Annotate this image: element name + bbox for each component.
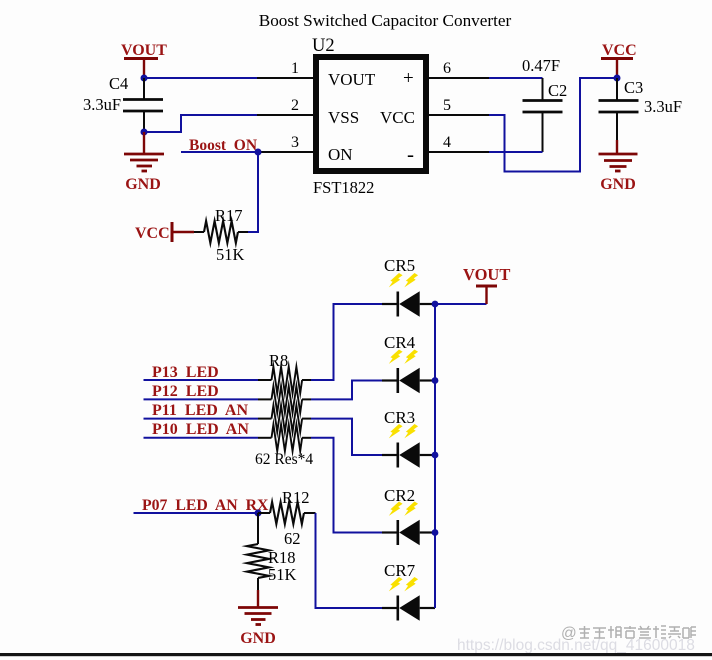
wire Boost_ON to pin 3: [181, 151, 258, 153]
svg-text:VOUT: VOUT: [121, 42, 167, 59]
svg-text:GND: GND: [240, 630, 276, 647]
wire R8 row4 down to CR2: [302, 437, 311, 439]
node junction CR3 / bus: [432, 452, 439, 459]
svg-text:P12 LED: P12 LED: [152, 383, 219, 400]
svg-text:+: +: [403, 68, 414, 89]
svg-text:GND: GND: [125, 176, 161, 193]
wire P12 to R8: [144, 398, 259, 400]
svg-text:FST1822: FST1822: [313, 178, 374, 197]
svg-text:@: @: [561, 625, 577, 642]
svg-text:3: 3: [291, 134, 299, 151]
capacitor C3: [599, 78, 639, 140]
svg-text:1: 1: [291, 60, 299, 77]
svg-text:5: 5: [443, 97, 451, 114]
svg-text:VSS: VSS: [328, 108, 359, 127]
wire C4 bottom to pin 2 (VSS): [144, 115, 257, 132]
svg-text:GND: GND: [600, 176, 636, 193]
power symbol VCC (right): [601, 42, 637, 78]
resistor R17: [194, 221, 248, 243]
svg-text:62 Res*4: 62 Res*4: [255, 451, 313, 468]
svg-text:-: -: [407, 142, 414, 166]
wire pin 6 to C2 top: [489, 77, 543, 79]
watermark juejin community: [561, 625, 577, 642]
op-amp U2 inner pin names: [328, 68, 415, 166]
svg-text:3.3uF: 3.3uF: [83, 95, 121, 114]
LED CR4: [382, 333, 435, 393]
wire P13 to R8: [144, 379, 259, 381]
node junction Boost_ON / R17: [255, 149, 262, 156]
svg-text:VCC: VCC: [602, 42, 637, 59]
watermark cjk glyphs: [579, 626, 696, 638]
LED CR5: [382, 256, 435, 317]
svg-text:ON: ON: [328, 145, 353, 164]
LED CR3: [382, 408, 435, 468]
svg-text:CR3: CR3: [384, 408, 415, 427]
op-amp U2 body: [316, 57, 426, 171]
resistor network R8 (4 zigzags): [272, 367, 303, 451]
ground symbol (C4): [124, 132, 164, 193]
bottom border line: [0, 653, 712, 656]
pin 2 lead: [257, 114, 313, 116]
capacitor C4: [123, 78, 163, 132]
wire P10 to R8: [144, 437, 259, 439]
pin 4 lead: [429, 151, 489, 153]
capacitor C2: [523, 78, 563, 152]
node junction CR4 / bus: [432, 377, 439, 384]
svg-text:P10 LED AN: P10 LED AN: [152, 421, 249, 438]
svg-text:C2: C2: [548, 81, 567, 100]
svg-text:CR5: CR5: [384, 256, 415, 275]
pin 5 lead: [429, 114, 489, 116]
svg-text:VCC: VCC: [380, 108, 415, 127]
node junction CR5 / bus: [432, 301, 439, 308]
ground symbol (C3): [599, 140, 638, 193]
svg-text:P07 LED AN RX: P07 LED AN RX: [142, 497, 269, 514]
svg-text:VCC: VCC: [135, 225, 170, 242]
svg-text:6: 6: [443, 60, 451, 77]
svg-text:CR4: CR4: [384, 333, 416, 352]
ground symbol (R18): [238, 590, 278, 647]
pin 3 lead: [258, 151, 313, 153]
svg-text:0.47F: 0.47F: [522, 56, 560, 75]
svg-text:P13 LED: P13 LED: [152, 364, 219, 381]
svg-text:51K: 51K: [216, 245, 245, 264]
svg-text:51K: 51K: [268, 565, 297, 584]
svg-text:R12: R12: [282, 488, 310, 507]
svg-text:3.3uF: 3.3uF: [644, 97, 682, 116]
power symbol VOUT (left): [121, 42, 167, 78]
wire P07 to node: [134, 512, 259, 514]
node junction VCC / C3: [614, 75, 621, 82]
power symbol VOUT (right): [435, 265, 510, 304]
resistor R12: [258, 502, 316, 524]
svg-text:VOUT: VOUT: [463, 265, 510, 284]
svg-text:2: 2: [291, 97, 299, 114]
node junction CR2 / bus: [432, 529, 439, 536]
resistor R18: [247, 513, 269, 590]
svg-text:VOUT: VOUT: [328, 70, 376, 89]
svg-text:U2: U2: [312, 36, 335, 56]
wire node VOUT to pin 1: [144, 77, 257, 79]
LED CR2: [382, 486, 435, 545]
svg-text:CR7: CR7: [384, 561, 416, 580]
LED CR7: [382, 561, 435, 621]
svg-text:62: 62: [284, 529, 301, 548]
svg-text:C3: C3: [624, 78, 643, 97]
pin 1 lead: [257, 77, 313, 79]
wire pin 4 to C2 bottom: [489, 151, 543, 153]
wire P11 to R8: [144, 418, 259, 420]
wire R8 row2 up to CR4: [302, 398, 311, 400]
node junction at C4 top: [141, 75, 148, 82]
svg-text:4: 4: [443, 134, 451, 151]
wire R8 row3 down to CR3: [302, 418, 311, 420]
wire R12 to CR7: [316, 513, 383, 608]
node junction P07 / R12 / R18: [255, 510, 262, 517]
pin 6 lead: [429, 77, 489, 79]
wire R8 row1 up to CR5: [302, 379, 311, 381]
svg-text:R17: R17: [215, 206, 243, 225]
wire pin3 node down to R17: [248, 152, 258, 232]
node junction at C4 bottom: [141, 129, 148, 136]
svg-text:Boost Switched Capacitor Conve: Boost Switched Capacitor Converter: [259, 11, 512, 30]
power symbol VCC (left): [135, 222, 194, 242]
wire bus VOUT vertical: [434, 304, 436, 608]
wire pin 5 to VCC node: [489, 78, 617, 172]
svg-text:P11 LED AN: P11 LED AN: [152, 402, 248, 419]
svg-text:R8: R8: [269, 351, 288, 370]
svg-text:C4: C4: [109, 74, 128, 93]
